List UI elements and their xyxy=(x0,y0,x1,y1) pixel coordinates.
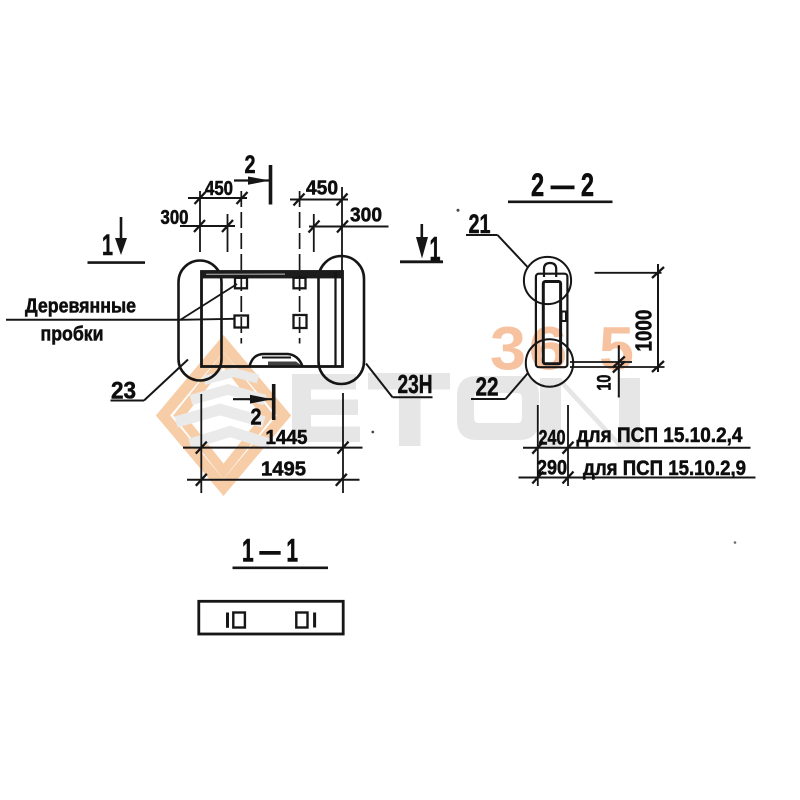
svg-text:300: 300 xyxy=(161,207,189,229)
section marker 2 bottom: line xyxy=(233,398,274,400)
svg-text:2: 2 xyxy=(245,151,256,179)
dim 10 line xyxy=(618,345,620,397)
svg-text:1000: 1000 xyxy=(631,310,657,352)
svg-text:450: 450 xyxy=(205,178,233,200)
wooden plug 2 xyxy=(294,278,306,289)
svg-text:240: 240 xyxy=(539,427,566,450)
svg-text:для ПСП 15.10.2,4: для ПСП 15.10.2,4 xyxy=(577,424,743,447)
section 2-2 right notch xyxy=(562,312,567,322)
svg-text:22: 22 xyxy=(476,372,499,402)
tick xyxy=(563,442,574,454)
tick xyxy=(337,194,348,206)
dim 450 left line xyxy=(188,197,247,199)
svg-text:290: 290 xyxy=(537,457,567,480)
tick xyxy=(194,220,205,232)
tick xyxy=(532,472,543,484)
section marker 1 left: arrow head xyxy=(115,238,127,255)
arch inner line xyxy=(262,357,291,359)
extension line below section left xyxy=(537,405,539,486)
drawing ink xyxy=(0,0,1,1)
dim 1495 line xyxy=(187,479,360,481)
watermark logo diamond xyxy=(163,344,284,488)
tick xyxy=(613,357,625,368)
plan: top band scan streak xyxy=(206,273,285,275)
label 23 underline xyxy=(111,400,145,402)
dim 10 extension lower / 1000 bottom xyxy=(570,366,665,368)
logo chevron planks xyxy=(204,373,258,381)
section 2-2 inner profile xyxy=(543,282,560,364)
watermark 365 xyxy=(490,315,634,383)
dim 1000 line xyxy=(657,264,659,372)
wooden plug 4 xyxy=(294,315,307,328)
tick xyxy=(563,472,574,484)
text items xyxy=(25,151,746,569)
watermark letter N xyxy=(540,378,640,448)
wooden plug 1 xyxy=(235,278,247,289)
extension line x342 xyxy=(341,187,343,272)
dim 1000 extension top xyxy=(595,272,662,274)
plan: left end cap 23 xyxy=(179,261,222,381)
svg-text:21: 21 xyxy=(469,209,491,239)
tick xyxy=(336,474,347,486)
watermark letter O xyxy=(457,376,539,440)
speck xyxy=(371,431,374,434)
plan: panel outline xyxy=(202,272,343,367)
section marker 2 top: bar xyxy=(269,165,273,205)
section marker 2 bottom: bar xyxy=(272,384,276,420)
section 1-1 title underline xyxy=(233,566,329,569)
tick xyxy=(196,442,207,454)
plan: right inner line xyxy=(334,272,336,367)
section 2-2 title underline xyxy=(508,201,613,204)
tick xyxy=(337,221,348,233)
dim 290 line xyxy=(519,477,756,479)
plug centerline right xyxy=(299,191,301,344)
tick xyxy=(338,442,349,454)
tick xyxy=(294,194,305,206)
dim 300 right line xyxy=(309,226,389,228)
label 21 underline xyxy=(466,234,498,236)
svg-text:23Н: 23Н xyxy=(398,369,433,399)
svg-text:1: 1 xyxy=(102,229,113,262)
section marker 1 right: base line xyxy=(400,260,443,263)
tick xyxy=(652,267,664,278)
plug centerline left xyxy=(240,191,242,344)
section 1-1 right bar xyxy=(313,613,316,628)
leader to plug 1 xyxy=(181,284,238,320)
label 21 leader xyxy=(498,235,529,268)
speck xyxy=(734,541,737,544)
svg-text:пробки: пробки xyxy=(41,324,104,346)
dim 450 right line xyxy=(290,199,348,201)
label 23N leader xyxy=(366,364,393,398)
lifting loop arch xyxy=(250,354,303,366)
section 2-2 outer profile xyxy=(536,274,568,368)
label 23 leader xyxy=(144,360,188,401)
label 22 underline xyxy=(471,398,506,400)
section marker 2 top: arrow xyxy=(248,177,270,185)
tick xyxy=(652,361,664,372)
tick xyxy=(237,192,248,204)
svg-text:300: 300 xyxy=(350,205,382,227)
extension line x200 xyxy=(199,191,201,252)
svg-text:Деревянные: Деревянные xyxy=(25,296,136,318)
dim 300 left line xyxy=(180,225,235,227)
detail circle top xyxy=(524,257,571,304)
wooden plug 3 xyxy=(235,316,249,328)
section 2-2 top tab xyxy=(544,263,556,277)
section marker 1 right: arrow head xyxy=(416,237,428,259)
svg-text:1 — 1: 1 — 1 xyxy=(242,533,298,569)
leader to plug 3 xyxy=(181,319,235,320)
plan: right end cap 23N xyxy=(319,256,365,384)
dim 10 extension upper xyxy=(570,361,632,363)
watermark letter E xyxy=(292,373,640,448)
tick xyxy=(613,362,625,373)
dim 240 line xyxy=(523,447,751,449)
tick xyxy=(195,192,206,204)
svg-text:2: 2 xyxy=(251,404,262,430)
label 22 leader xyxy=(506,373,529,399)
svg-text:1445: 1445 xyxy=(266,427,308,449)
section marker 2 top: line xyxy=(234,179,271,181)
svg-text:23: 23 xyxy=(111,378,136,405)
section 1-1 left plug square xyxy=(233,613,245,628)
section marker 2 bottom: arrow xyxy=(250,395,272,404)
extension line below section right xyxy=(567,405,569,486)
bottom extension line left xyxy=(200,394,202,493)
watermark letter T xyxy=(368,373,450,446)
tick xyxy=(196,474,207,486)
extension line x227.5 xyxy=(227,214,229,252)
label 23N underline xyxy=(393,396,433,398)
section 1-1 left bar xyxy=(226,613,229,628)
svg-text:5: 5 xyxy=(599,315,634,383)
svg-text:2 — 2: 2 — 2 xyxy=(531,167,594,203)
svg-text:10: 10 xyxy=(595,375,616,391)
tick xyxy=(222,220,233,232)
arch inner shade xyxy=(268,362,302,366)
section marker 1 left: arrow stem xyxy=(120,217,123,242)
plan: top band (filled) xyxy=(202,271,343,278)
detail circle bottom xyxy=(526,339,573,386)
tick xyxy=(309,221,320,233)
label leader line (underline) for wooden plugs xyxy=(6,319,181,321)
svg-text:для ПСП 15.10.2,9: для ПСП 15.10.2,9 xyxy=(583,457,746,480)
dim 1445 line xyxy=(183,447,363,449)
section marker 1 left: base line xyxy=(88,261,146,264)
tick xyxy=(532,442,543,454)
bottom extension line right xyxy=(342,393,344,493)
svg-text:1: 1 xyxy=(430,231,441,269)
extension line x313.8 xyxy=(313,214,315,252)
section marker 1 right: arrow stem xyxy=(420,224,423,244)
svg-text:1495: 1495 xyxy=(261,459,306,481)
section 1-1 right plug square xyxy=(296,613,307,628)
svg-text:450: 450 xyxy=(306,178,338,200)
speck xyxy=(457,209,460,212)
section 1-1 outline xyxy=(199,601,343,634)
